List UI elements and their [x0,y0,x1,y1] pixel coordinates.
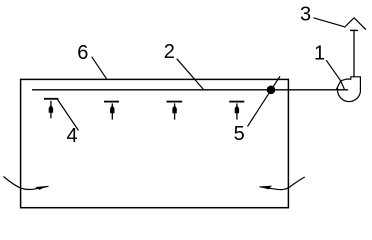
svg-text:1: 1 [314,42,325,64]
leader line to label 1 [326,60,341,81]
nozzle N4 stem [236,103,238,119]
inlet flow arrowhead left [35,186,47,190]
svg-text:4: 4 [66,125,77,147]
spray pipe line 2 [32,89,348,91]
nozzle N3 arrowhead [172,105,176,113]
leader line to label 3 [314,18,345,27]
float valve U1 triangle [336,81,344,90]
svg-text:6: 6 [77,42,88,64]
svg-text:2: 2 [164,41,175,63]
vent chevron symbol 3 [344,18,366,30]
vent riser wire [353,31,355,77]
leader line to label 2 [177,59,204,90]
svg-text:3: 3 [300,4,311,26]
leader line to label 5 [248,76,281,126]
inlet flow arrow left [4,177,49,190]
float valve U1 body (stepped cap and round bowl) [338,77,361,102]
nozzle N1 stem [50,101,52,119]
inlet flow arrowhead right [260,186,273,190]
nozzle N1 arrowhead [49,105,53,113]
nozzle N2 arrowhead [110,105,114,113]
nozzle N3 stem [174,103,176,119]
nozzle N4 arrowhead [235,105,239,113]
leader line to label 6 [92,57,107,79]
svg-text:5: 5 [234,123,245,145]
nozzle N2 bar [104,101,119,103]
nozzle N4 bar [229,101,244,103]
nozzle N2 stem [111,103,113,119]
junction dot node 5 [267,86,276,95]
vent top bar [350,29,358,31]
nozzle N1 bar [44,98,58,100]
tank body (rectangle) [21,79,289,207]
leader line to label 4 [57,99,78,131]
nozzle N3 bar [167,101,183,103]
inlet flow arrow right [260,177,305,190]
